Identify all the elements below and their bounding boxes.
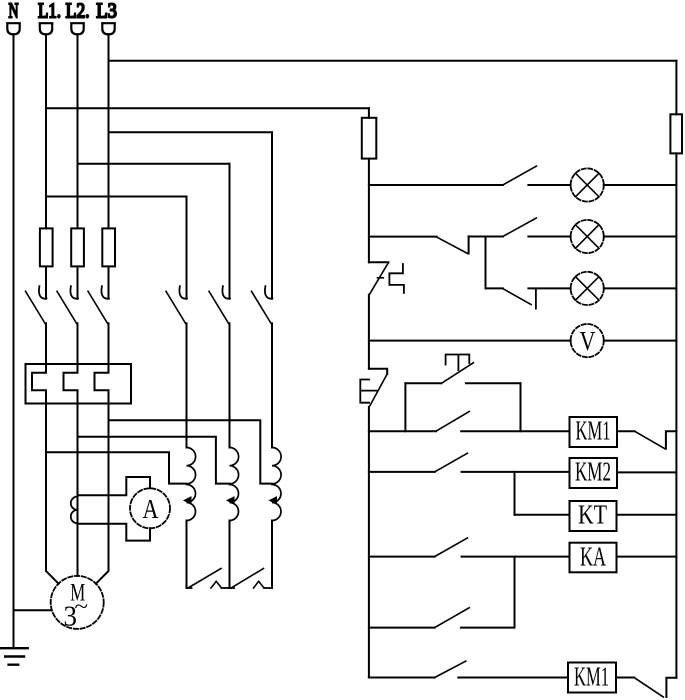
wire motor phase U: [46, 404, 59, 584]
row3 wire left: [486, 287, 503, 289]
current transformer TA on L2 line: [71, 497, 78, 524]
star contact 2: [230, 569, 273, 589]
wire SB2 branch right: [520, 383, 522, 431]
row KA wire: [462, 556, 570, 558]
svg-text:KM1: KM1: [574, 662, 609, 692]
wire CT secondary top: [78, 477, 151, 495]
contact KA aux bottom: [435, 661, 466, 677]
bottom row wire: [458, 677, 568, 679]
svg-text:~: ~: [75, 594, 89, 619]
right control bus upper: [675, 61, 677, 115]
row KT wire right: [617, 514, 677, 516]
wire winding2 upper: [229, 164, 231, 299]
contact KM1 pole 2: [209, 286, 230, 323]
autotransformer winding T2: [227, 448, 239, 521]
contact KM1 aux seal: [436, 412, 469, 432]
row2 wire middle: [469, 236, 503, 238]
terminal N: [7, 23, 20, 34]
row1 wire to lamp1: [528, 184, 570, 186]
contact SA3 hook: [535, 289, 537, 309]
wire KM2 row to KT: [514, 472, 516, 515]
FR heater 2: [64, 364, 78, 404]
wire SB2 branch left: [404, 383, 406, 431]
contact KM1 NC interlock bottom: [634, 678, 676, 698]
row KM1 wire left: [369, 430, 436, 432]
contact SA2: [503, 218, 537, 237]
wire L2 below fuse: [77, 266, 79, 298]
fuse FU1b: [71, 228, 84, 266]
contact KM1 pole 3: [252, 286, 273, 323]
row2 wire left: [369, 236, 437, 238]
wire L2 branch to winding 2: [78, 163, 230, 165]
row KT-contact wire left: [369, 627, 435, 629]
svg-text:V: V: [580, 325, 596, 356]
fuse FU1a: [40, 228, 53, 266]
wire tap2 from L2 line to winding 2: [78, 437, 230, 484]
wire N vertical: [13, 34, 15, 648]
row KA wire left: [369, 556, 435, 558]
svg-text:KT: KT: [578, 500, 607, 530]
autotransformer winding T1: [184, 448, 196, 521]
terminal L1: [40, 23, 53, 34]
contact QS pole 1: [26, 286, 47, 323]
wire KA row to KT contact row: [514, 557, 516, 628]
selector SA return: [468, 236, 470, 253]
ground: [0, 648, 28, 665]
wire N to motor frame: [14, 609, 51, 611]
left bus segment: [368, 295, 370, 369]
row2 wire to lamp2: [528, 236, 570, 238]
row KT-contact wire right: [461, 627, 515, 629]
row2 wire right: [604, 236, 677, 238]
wire L3 branch to winding 3: [109, 131, 273, 133]
wire winding2 middle: [229, 323, 231, 447]
coil KT: [570, 500, 617, 532]
wire motor phase V: [77, 404, 79, 576]
row3 wire right: [604, 287, 677, 289]
wire L1 vertical upper: [45, 34, 47, 228]
row1 wire left: [369, 184, 503, 186]
row4 wire right: [604, 340, 677, 342]
contact QS pole 2: [57, 286, 78, 323]
row3 wire to lamp3: [528, 287, 570, 289]
coil KM1 bottom: [568, 662, 616, 693]
svg-text:A: A: [143, 493, 159, 524]
wire CT secondary bottom: [78, 524, 151, 541]
row KM1 wire: [461, 430, 569, 432]
wire L1 to FR: [45, 323, 47, 364]
wire L2 to FR: [77, 323, 79, 364]
star contact 1: [187, 569, 230, 589]
fuse FU2a: [362, 118, 377, 159]
contact KM2 aux for KA: [435, 538, 468, 557]
contact KM1 pole 1: [166, 286, 187, 323]
FR heater 1: [32, 364, 46, 404]
wire winding2 lower: [229, 521, 231, 589]
wire L1 to left control bus: [46, 107, 369, 109]
coil KM1: [570, 416, 618, 448]
bottom row wire left: [369, 677, 435, 679]
wire winding1 lower: [186, 521, 188, 589]
left control bus: [368, 159, 370, 263]
wire winding3 middle: [271, 323, 273, 447]
coil KM2: [570, 457, 618, 489]
svg-text:KA: KA: [580, 542, 606, 572]
wire L1 branch to winding 1: [46, 196, 187, 198]
coil KA: [570, 542, 617, 573]
wire L3 to right bus top: [109, 60, 677, 62]
svg-text:L1.: L1.: [38, 0, 61, 23]
svg-text:KM2: KM2: [575, 457, 611, 487]
right control bus: [675, 153, 677, 677]
pushbutton SB2 start: [405, 355, 520, 384]
svg-text:L3: L3: [96, 0, 117, 23]
row KM2 wire: [462, 471, 570, 473]
row KT wire left: [515, 514, 570, 516]
lamp HL3: [571, 272, 604, 305]
row KM2 wire left: [369, 471, 435, 473]
autotransformer winding T3: [270, 448, 282, 521]
terminal L3: [102, 23, 115, 34]
wire selector to row3: [485, 237, 487, 289]
terminal L2: [71, 23, 84, 34]
lamp HL1: [571, 168, 604, 201]
ammeter A: [130, 488, 170, 528]
wire winding1 upper: [186, 197, 188, 299]
svg-text:L2.: L2.: [66, 0, 90, 23]
wire winding3 upper: [271, 132, 273, 298]
contact SA1: [503, 166, 537, 185]
fuse FU2b: [670, 114, 682, 153]
wire winding3 lower: [271, 521, 273, 589]
thermal relay FR box: [26, 364, 132, 404]
selector SA blade: [437, 237, 468, 253]
row4 wire left: [369, 340, 571, 342]
wire motor phase W: [96, 404, 109, 584]
wire tap1 from L1 line to winding 1: [46, 452, 187, 483]
row KA wire right: [617, 556, 677, 558]
row KM2 wire right: [617, 471, 676, 473]
pushbutton SB1 stop: [360, 369, 387, 406]
row1 wire right: [604, 184, 677, 186]
motor M: [51, 576, 104, 633]
left control bus upper: [368, 108, 370, 118]
wire L3 below fuse: [108, 266, 110, 298]
contact FR NC on bus: [369, 262, 404, 294]
contact QS pole 3: [88, 286, 109, 323]
left bus segment lower: [368, 407, 370, 678]
svg-text:N: N: [9, 0, 19, 23]
wire L2 vertical upper: [77, 34, 79, 228]
wire tap3 from L3 line to winding 3: [109, 420, 273, 483]
wire winding1 middle: [186, 323, 188, 447]
wire KM1 to interlock: [617, 430, 635, 432]
wire L1 below fuse: [45, 266, 47, 298]
wire KM1b to interlock: [616, 677, 634, 679]
FR heater 3: [95, 364, 109, 404]
lamp HL2: [571, 220, 604, 253]
wire L3 vertical upper: [108, 34, 110, 228]
voltmeter V: [571, 324, 604, 357]
contact KA aux: [435, 453, 468, 472]
svg-text:KM1: KM1: [576, 416, 611, 446]
contact SA3 blade: [503, 289, 531, 305]
contact KM2 NC interlock: [635, 431, 677, 449]
contact KT delayed: [435, 608, 470, 628]
wire L3 to FR: [108, 323, 110, 364]
fuse FU1c: [102, 228, 115, 266]
